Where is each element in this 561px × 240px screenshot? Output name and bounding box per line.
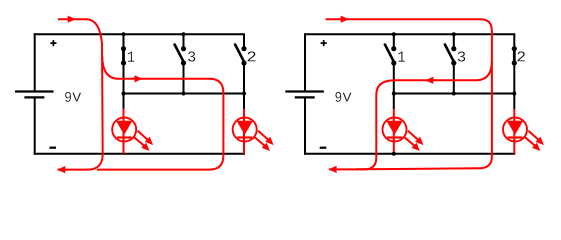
node: top rail / switch 3 junction (left circuit) <box>182 32 186 36</box>
node: top rail / switch 3 junction (right circuit) <box>452 32 456 36</box>
LED D2 (left circuit) light emission arrows <box>254 131 274 151</box>
switch SW3 left circuit (open) <box>175 45 186 66</box>
current flow path: branch through switch region (left circuit) <box>97 56 223 170</box>
LED D2 (left circuit) <box>233 109 257 154</box>
battery B1 9V (left circuit) <box>15 92 54 98</box>
node: middle rail / switch 3 junction (left circuit) <box>182 92 186 96</box>
switch SW2 right circuit (closed) <box>512 46 517 65</box>
wire switch 3 upper lead (right circuit) <box>453 34 455 48</box>
wire battery negative lead (left circuit) <box>34 98 36 154</box>
label 9V <box>335 92 351 102</box>
wire battery positive lead (right circuit) <box>304 33 306 90</box>
wire switch 1 upper lead (left circuit) <box>123 34 125 48</box>
LED D4 (right circuit) <box>503 109 527 154</box>
node: middle rail / switch 2 / LED junction (left circuit) <box>242 92 246 96</box>
LED D4 (right circuit) light emission arrows <box>524 131 544 151</box>
wire switch 1 lower lead (left circuit) <box>123 63 125 94</box>
wire LED D4 top lead black segment (right circuit) <box>513 94 515 110</box>
node: middle rail / switch 2 / LED junction (right circuit) <box>512 92 516 96</box>
label - (battery negative) <box>320 147 327 149</box>
wire top rail (right circuit) <box>304 33 515 35</box>
wire LED D2 top lead black segment (left circuit) <box>243 94 245 110</box>
LED D1 (left circuit) light emission arrows <box>134 131 154 151</box>
wire battery positive lead (left circuit) <box>34 33 36 90</box>
label + (battery positive) <box>321 40 327 46</box>
wire battery negative lead (right circuit) <box>304 98 306 154</box>
current flow path: battery loop via left side (left circuit) <box>57 16 103 174</box>
LED D3 (right circuit) light emission arrows <box>404 131 424 151</box>
LED D1 (left circuit) <box>112 109 136 154</box>
wire bottom rail (right circuit) <box>304 153 515 155</box>
switch SW2 left circuit (open) <box>235 45 246 66</box>
node: middle rail / switch 3 junction (right circuit) <box>452 92 456 96</box>
current flow path: battery loop via right side (right circuit) <box>326 16 492 170</box>
label 2 (switch SW2 left) <box>248 51 256 61</box>
label 1 (switch SW1 left) <box>128 51 135 61</box>
switch SW3 right circuit (open) <box>445 45 457 66</box>
label 2 (switch SW2 right) <box>517 51 525 61</box>
switch SW1 right circuit (open) <box>385 45 397 66</box>
label - (battery negative) <box>49 147 56 149</box>
wire switch 3 upper lead (left circuit) <box>183 34 185 48</box>
wire top rail (left circuit) <box>34 33 245 35</box>
battery B2 9V (right circuit) <box>285 92 324 98</box>
wire switch 2 upper lead (left circuit) <box>243 34 245 48</box>
wire switch 2 lower lead (left circuit) <box>243 63 245 94</box>
label 1 (switch SW1 right) <box>398 51 405 61</box>
wire middle rail (right circuit) <box>394 93 516 95</box>
wire middle rail (left circuit) <box>124 93 246 95</box>
node: top rail / switch 1 junction (right circuit) <box>392 32 396 36</box>
label 3 (switch SW3 left) <box>188 51 195 61</box>
label 9V <box>65 92 81 102</box>
wire switch 1 lower lead (right circuit) <box>393 63 395 94</box>
node: top rail / switch 1 junction (left circuit) <box>122 32 126 36</box>
node: middle rail / switch 1 / LED junction (right circuit) <box>392 92 396 96</box>
node: bottom rail / LED D3 junction (right circuit) <box>392 152 396 156</box>
wire LED D1 top lead black segment (left circuit) <box>123 94 125 110</box>
wire switch 2 lower lead (right circuit) <box>513 63 515 94</box>
wire bottom rail (left circuit) <box>34 153 245 155</box>
wire switch 3 lower lead (left circuit) <box>183 63 185 94</box>
wire LED D3 top lead black segment (right circuit) <box>393 94 395 110</box>
current flow path: branch through switch region (right circuit) <box>328 61 492 173</box>
wire switch 1 upper lead (right circuit) <box>393 34 395 48</box>
switch SW1 left circuit (closed) <box>121 46 126 65</box>
label 3 (switch SW3 right) <box>458 51 466 61</box>
wire switch 3 lower lead (right circuit) <box>453 63 455 94</box>
wire switch 2 upper lead (right circuit) <box>513 34 515 48</box>
LED D3 (right circuit) <box>383 109 407 154</box>
label + (battery positive) <box>50 40 56 46</box>
node: middle rail / switch 1 / LED junction (left circuit) <box>122 92 126 96</box>
